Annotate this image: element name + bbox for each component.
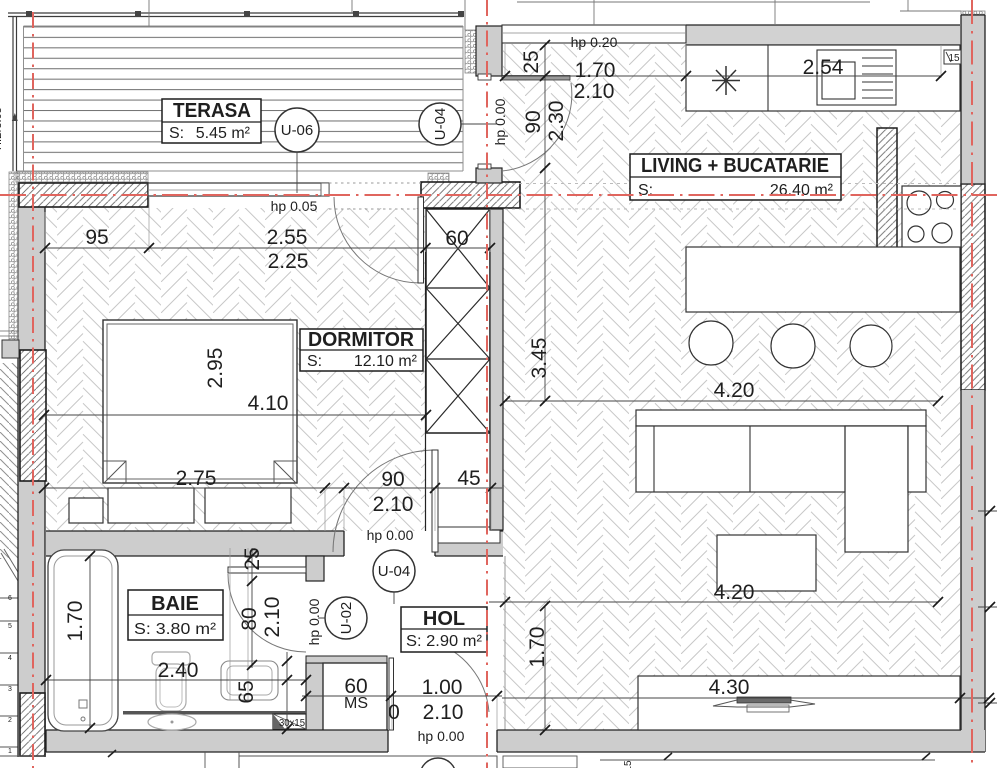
svg-text:1.70: 1.70 [575, 59, 616, 82]
svg-text:S:: S: [638, 182, 653, 199]
svg-text:3.45: 3.45 [528, 338, 551, 379]
svg-text:hp 0.00: hp 0.00 [492, 98, 508, 145]
svg-text:25: 25 [520, 50, 543, 73]
svg-text:MS: MS [344, 695, 368, 712]
svg-text:5: 5 [8, 623, 12, 630]
svg-text:3: 3 [8, 686, 12, 693]
svg-text:2.10: 2.10 [373, 493, 414, 516]
svg-text:U-04: U-04 [432, 108, 449, 141]
svg-text:60: 60 [445, 227, 468, 250]
svg-text:2.10: 2.10 [261, 597, 284, 638]
svg-text:12.10 m²: 12.10 m² [354, 353, 418, 370]
svg-text:H.B/3.05: H.B/3.05 [0, 107, 4, 150]
svg-text:4.20: 4.20 [714, 379, 755, 402]
svg-text:80: 80 [238, 607, 261, 630]
svg-text:25: 25 [241, 547, 264, 570]
svg-text:15: 15 [623, 760, 634, 768]
svg-text:0: 0 [388, 701, 400, 724]
svg-text:U-04: U-04 [378, 563, 411, 580]
svg-text:4.10: 4.10 [248, 392, 289, 415]
svg-text:95: 95 [85, 226, 108, 249]
svg-text:1.70: 1.70 [64, 601, 87, 642]
svg-text:hp 0.20: hp 0.20 [571, 34, 618, 50]
svg-text:2.10: 2.10 [574, 80, 615, 103]
svg-text:S:: S: [169, 125, 184, 142]
svg-text:S: 2.90 m²: S: 2.90 m² [406, 633, 483, 650]
svg-text:hp 0.00: hp 0.00 [306, 598, 322, 645]
svg-text:2: 2 [8, 717, 12, 724]
svg-text:DORMITOR: DORMITOR [308, 329, 415, 351]
svg-text:4.30: 4.30 [709, 676, 750, 699]
svg-text:LIVING + BUCATARIE: LIVING + BUCATARIE [641, 155, 829, 177]
svg-text:4.20: 4.20 [714, 581, 755, 604]
svg-text:TERASA: TERASA [173, 100, 251, 122]
svg-text:5.45 m²: 5.45 m² [196, 125, 251, 142]
svg-text:90: 90 [381, 468, 404, 491]
svg-text:4: 4 [8, 655, 12, 662]
svg-text:2.55: 2.55 [267, 226, 308, 249]
svg-text:45: 45 [457, 467, 480, 490]
svg-text:hp 0.00: hp 0.00 [367, 527, 414, 543]
svg-text:S:: S: [307, 353, 322, 370]
svg-text:2.25: 2.25 [268, 250, 309, 273]
svg-text:U-06: U-06 [281, 122, 314, 139]
svg-text:1.00: 1.00 [422, 676, 463, 699]
svg-text:BAIE: BAIE [151, 593, 199, 615]
svg-text:30x15: 30x15 [279, 718, 305, 729]
svg-text:15: 15 [948, 53, 960, 64]
svg-text:2.40: 2.40 [158, 659, 199, 682]
svg-text:2.54: 2.54 [803, 56, 844, 79]
svg-text:HOL: HOL [423, 608, 465, 630]
svg-text:26.40 m²: 26.40 m² [770, 182, 834, 199]
svg-text:1: 1 [8, 748, 12, 755]
svg-text:65: 65 [235, 680, 258, 703]
svg-text:hp 0.00: hp 0.00 [418, 728, 465, 744]
svg-text:6: 6 [8, 595, 12, 602]
svg-text:2.10: 2.10 [423, 701, 464, 724]
svg-text:2.95: 2.95 [204, 348, 227, 389]
svg-text:S: 3.80 m²: S: 3.80 m² [134, 621, 217, 638]
svg-text:2.30: 2.30 [545, 101, 568, 142]
svg-text:90: 90 [522, 110, 545, 133]
svg-text:2.75: 2.75 [176, 467, 217, 490]
svg-text:U-02: U-02 [338, 602, 355, 635]
svg-text:1.70: 1.70 [526, 627, 549, 668]
svg-text:hp 0.05: hp 0.05 [271, 198, 318, 214]
